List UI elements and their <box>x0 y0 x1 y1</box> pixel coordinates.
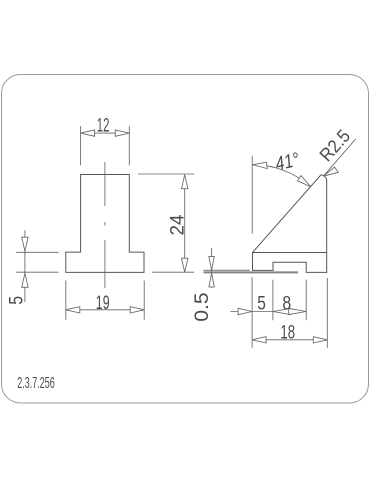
svg-text:2.3.7.256: 2.3.7.256 <box>17 375 55 392</box>
datum: seating plane line (grey) <box>204 271 299 273</box>
arrow: dim 0.5 top (points down) <box>209 256 214 270</box>
dim 12: dimension line <box>81 132 130 134</box>
dim 24: dimension line <box>184 175 186 273</box>
dim 5 left: dimension line <box>24 230 26 302</box>
arrow: dim 18 left <box>252 337 266 343</box>
side view: base top edge <box>253 252 327 254</box>
dim 0.5: dimension line <box>211 248 213 288</box>
arrow: dim 12 left <box>81 130 95 136</box>
arrow: dim 8 right (points right) <box>289 308 307 314</box>
drawing sheet border <box>2 75 369 404</box>
svg-text:R2.5: R2.5 <box>315 125 354 165</box>
arrow: dim 12 right <box>115 130 129 136</box>
svg-text:5: 5 <box>6 296 28 305</box>
svg-text:8: 8 <box>282 293 291 315</box>
arrow: dim 41 end (points down-right) <box>298 176 311 187</box>
arrow: dim 8 left (points left) <box>273 308 291 314</box>
dim 24: extension lines <box>138 173 194 175</box>
dim 41deg: vertical extension line <box>251 156 253 234</box>
dim 18: dimension line <box>252 339 327 341</box>
dim 19: dimension line <box>66 309 144 311</box>
arrow: dim 41 top (points left) <box>253 162 268 168</box>
side view bottom: extension lines <box>251 277 253 348</box>
dim 19: extension lines <box>65 281 67 320</box>
dim 41deg: arc dimension line <box>253 165 311 187</box>
arrow: dim 5 left top (points down) <box>22 237 28 251</box>
svg-text:12: 12 <box>97 114 110 136</box>
arrow: dim 18 right <box>313 337 327 343</box>
svg-text:5: 5 <box>257 293 266 315</box>
svg-text:19: 19 <box>96 292 110 314</box>
arrow: dim 24 bottom <box>182 258 188 272</box>
svg-text:18: 18 <box>280 321 295 343</box>
dim 12: extension lines <box>80 126 82 165</box>
svg-text:41°: 41° <box>273 149 301 176</box>
svg-text:24: 24 <box>167 214 189 235</box>
arrow: dim 5 leader (points right) <box>238 308 252 314</box>
dim 5 left: extension lines <box>16 251 59 253</box>
front view: vertical center line <box>104 162 106 288</box>
front view: T profile outline <box>66 175 144 273</box>
arrow: dim 0.5 bottom (points up) <box>209 273 214 287</box>
dim R2.5: leader line <box>323 139 355 176</box>
svg-text:0.5: 0.5 <box>191 292 213 322</box>
side view: wedge outline <box>253 175 327 273</box>
arrow: dim 5 left bottom (points up) <box>22 273 28 287</box>
datum: bottom lip extension line (grey) <box>204 269 251 271</box>
arrow: dim 19 right <box>130 307 144 313</box>
arrow: dim 19 left <box>66 307 80 313</box>
arrow: R2.5 leader (points down-left) <box>323 167 338 176</box>
dim 5/8: dimension line with left leader <box>230 311 306 313</box>
arrow: dim 24 top <box>182 175 188 189</box>
